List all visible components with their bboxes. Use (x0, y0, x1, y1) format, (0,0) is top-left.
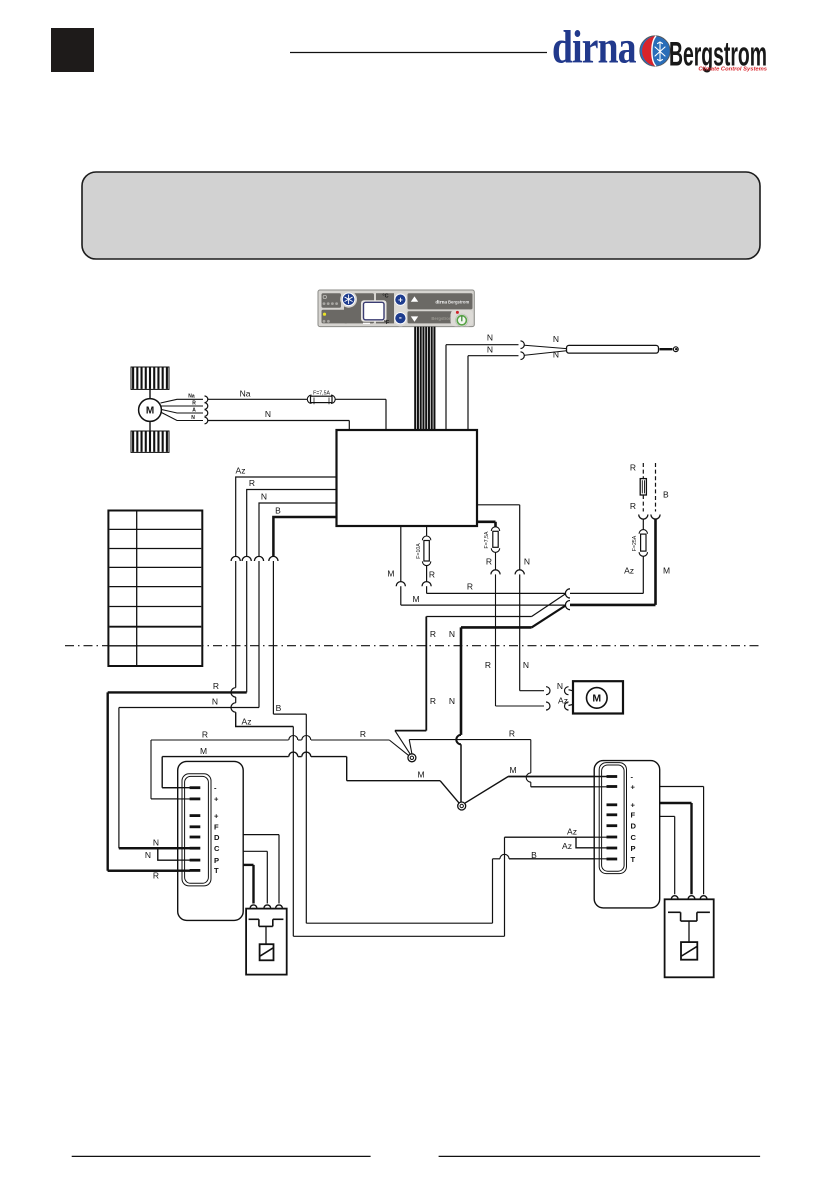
svg-text:+: + (631, 801, 636, 810)
svg-text:dirna: dirna (552, 22, 636, 74)
svg-text:N: N (553, 334, 559, 344)
svg-text:Az: Az (242, 716, 252, 726)
svg-text:N: N (265, 409, 271, 419)
svg-text:R: R (486, 556, 492, 566)
svg-text:N: N (524, 556, 530, 566)
svg-text:M: M (412, 594, 419, 604)
svg-text:M: M (200, 746, 207, 756)
svg-text:R: R (192, 400, 196, 406)
svg-text:F=25A: F=25A (632, 535, 638, 551)
svg-text:M: M (592, 693, 601, 705)
svg-text:N: N (487, 345, 493, 355)
svg-text:T: T (631, 855, 636, 864)
svg-text:R: R (430, 629, 436, 639)
svg-text:R: R (249, 478, 255, 488)
svg-text:-: - (399, 312, 402, 322)
svg-text:M: M (663, 565, 670, 575)
svg-text:N: N (191, 415, 195, 421)
svg-text:D: D (214, 833, 220, 842)
svg-text:D: D (631, 822, 637, 831)
svg-text:R: R (630, 463, 636, 473)
svg-text:R: R (360, 729, 366, 739)
svg-text:N: N (449, 696, 455, 706)
svg-text:dirna: dirna (435, 301, 447, 306)
svg-text:R: R (429, 569, 435, 579)
svg-text:+: + (214, 795, 219, 804)
svg-text:°F: °F (384, 320, 390, 326)
svg-text:F=7,5A: F=7,5A (313, 390, 330, 396)
svg-text:C: C (214, 844, 220, 853)
svg-text:Na: Na (188, 394, 195, 400)
svg-text:N: N (523, 660, 529, 670)
svg-text:N: N (553, 349, 559, 359)
svg-text:R: R (509, 729, 515, 739)
svg-text:P: P (631, 844, 636, 853)
svg-text:Climate Control Systems: Climate Control Systems (698, 67, 767, 73)
svg-text:+: + (631, 782, 636, 791)
svg-text:Az: Az (562, 841, 572, 851)
svg-text:N: N (449, 629, 455, 639)
svg-text:Az: Az (624, 565, 634, 575)
svg-text:T: T (214, 866, 219, 875)
svg-text:F: F (214, 823, 219, 832)
svg-text:R: R (467, 581, 473, 591)
svg-text:B: B (663, 490, 669, 500)
svg-text:F=7,5A: F=7,5A (484, 531, 490, 548)
svg-text:Bergstrom: Bergstrom (448, 300, 469, 305)
svg-text:N: N (212, 697, 218, 707)
svg-text:R: R (202, 729, 208, 739)
svg-text:Az: Az (558, 695, 568, 705)
svg-text:P: P (214, 856, 219, 865)
svg-text:N: N (487, 333, 493, 343)
svg-text:N: N (153, 837, 159, 847)
svg-text:N: N (261, 492, 267, 502)
svg-text:C: C (631, 833, 637, 842)
svg-text:Az: Az (236, 466, 246, 476)
svg-text:B: B (276, 703, 282, 713)
svg-text:A: A (192, 407, 196, 413)
svg-text:M: M (509, 765, 516, 775)
svg-text:M: M (387, 568, 394, 578)
svg-text:Na: Na (240, 389, 251, 399)
svg-text:R: R (430, 696, 436, 706)
svg-text:F: F (631, 811, 636, 820)
svg-text:R: R (153, 871, 159, 881)
svg-text:Az: Az (567, 826, 577, 836)
svg-text:M: M (146, 406, 154, 417)
svg-text:N: N (145, 850, 151, 860)
svg-text:R: R (485, 660, 491, 670)
svg-text:°C: °C (382, 294, 388, 300)
svg-text:N: N (557, 681, 563, 691)
svg-text:F=10A: F=10A (416, 543, 422, 559)
svg-text:+: + (214, 811, 219, 820)
svg-text:+: + (398, 296, 403, 305)
svg-text:B: B (275, 506, 281, 516)
svg-text:Bergstrom: Bergstrom (431, 316, 452, 321)
svg-text:R: R (213, 681, 219, 691)
svg-text:R: R (630, 501, 636, 511)
svg-text:M: M (417, 770, 424, 780)
